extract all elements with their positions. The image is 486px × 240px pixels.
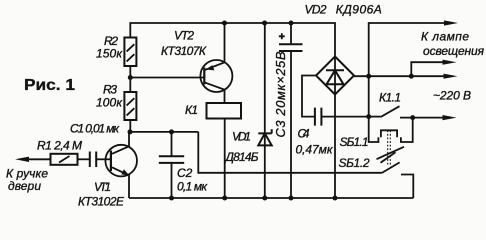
input arrow to door handle [22,158,51,160]
svg-text:0,47мк: 0,47мк [296,143,334,157]
zener VD1 [224,23,272,198]
transistor VT1 [78,132,137,209]
svg-text:0,1 мк: 0,1 мк [177,180,208,194]
svg-text:VD2: VD2 [305,3,327,17]
wire VD2 bottom lead [334,95,336,199]
wire R3 bottom to collector node [129,120,131,132]
svg-text:КТ3102Е: КТ3102Е [78,195,125,209]
arrow mains upper terminal [444,74,458,79]
arrow lamp lower terminal [443,60,457,65]
wire K1 bottom lead [224,119,226,199]
svg-text:150к: 150к [96,47,123,61]
wire VD2 left vertex to C4 [302,76,316,117]
capacitor C2 [159,132,209,198]
node VT2 emitter junction [222,21,227,26]
svg-text:К1: К1 [185,103,198,117]
capacitor C1 [70,122,120,168]
node K1.1 left [366,114,371,119]
node C2 top junction [169,129,174,134]
node line-A crossing [366,74,371,79]
svg-text:R1 2,4 М: R1 2,4 М [37,139,82,153]
node C3 bottom [289,196,294,201]
wire C1 to VT1 base [96,158,111,160]
capacitor C3 electrolytic [273,23,303,198]
wire R2 to R3 [129,66,131,92]
transistor VT2 [161,23,232,103]
wire collector node to SB1.2 [198,132,381,173]
node C3 top junction [289,21,294,26]
node VD1 bottom [262,196,267,201]
wire bottom rail [129,197,413,199]
relay K1 [185,103,241,119]
svg-text:Д814Б: Д814Б [224,150,259,164]
push-button SB1.2 [382,162,414,198]
node C2 bottom [169,196,174,201]
resistor R1 [37,139,82,165]
svg-text:Рис. 1: Рис. 1 [24,77,75,94]
svg-text:освещения: освещения [423,44,485,58]
svg-text:КТ3107К: КТ3107К [161,44,207,58]
wire branch to lamp terminal [411,62,448,76]
svg-text:КД906А: КД906А [336,3,382,17]
bridge rectifier VD2 [305,3,382,95]
resistor R3 [96,83,136,121]
relay contact K1.1 [369,91,449,118]
svg-text:100к: 100к [96,96,123,110]
wire collector node horizontal [130,131,198,133]
svg-text:SБ1.1: SБ1.1 [340,135,369,149]
svg-text:К лампе: К лампе [421,30,469,44]
svg-text:С3 20мк×25В: С3 20мк×25В [273,51,288,137]
node K1 bottom [222,196,227,201]
node mains branch [409,74,414,79]
wire R1 to C1 [78,158,90,160]
svg-text:двери: двери [8,179,41,193]
node VT1 collector junction [128,129,133,134]
svg-text:С4: С4 [298,127,310,141]
resistor R2 [96,34,136,66]
wire top-left rail [130,23,335,57]
arrow mains lower terminal [443,115,457,120]
capacitor C4 [296,108,369,157]
wire line A + lamp top terminal [369,23,449,117]
svg-text:VD1: VD1 [232,130,251,144]
push-button SB1.1 [339,117,413,170]
wire VD2 right vertex to mains node [354,75,449,77]
node VD1 top junction [262,21,267,26]
svg-text:R3: R3 [103,83,117,97]
svg-text:VT1: VT1 [94,180,111,194]
node VD2 bottom [333,196,338,201]
svg-text:VT2: VT2 [174,29,194,43]
svg-text:SБ1.2: SБ1.2 [339,156,370,170]
arrow lamp upper terminal [444,20,458,25]
node R2/R3/VT2-base junction [128,75,133,80]
svg-text:С2: С2 [177,166,193,180]
wire VT2 base feed [130,77,204,79]
svg-text:~220 В: ~220 В [433,89,471,103]
svg-text:С1 0,01 мк: С1 0,01 мк [70,122,120,136]
svg-text:К1.1: К1.1 [379,91,401,105]
node K1.1 right [410,115,415,120]
